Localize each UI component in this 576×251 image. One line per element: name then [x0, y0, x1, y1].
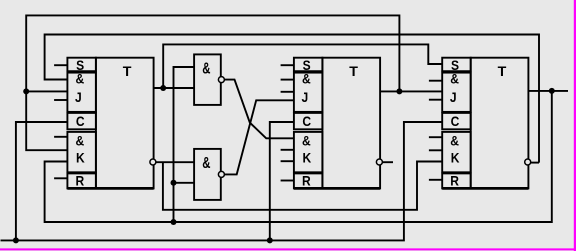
U1 C clock box	[67, 113, 96, 129]
U1 &K AND-K box	[67, 132, 96, 172]
junction dot v2/G2-in2	[171, 180, 177, 186]
flip-flop U2 body	[322, 58, 380, 189]
svg-text:C: C	[451, 113, 460, 129]
wire U1.Q to G1 input 2	[154, 87, 195, 89]
U3 inverted output bubble Qbar	[525, 159, 531, 165]
svg-text:T: T	[123, 64, 132, 80]
junction dot rail1/U1-J2	[23, 88, 29, 94]
wire U2.Qbar stub	[383, 161, 393, 163]
wire G2 output to U2 J (crossing up)	[224, 100, 294, 174]
svg-text:T: T	[498, 64, 507, 80]
junction dot clock/U2	[267, 237, 273, 243]
U3 unconnected input stub R	[429, 179, 442, 181]
U3 unconnected input stub J	[429, 99, 442, 101]
U3 S set box	[442, 58, 471, 71]
U1 inverted output bubble Qbar	[150, 159, 156, 165]
svg-text:J: J	[302, 89, 309, 105]
svg-text:K: K	[302, 150, 311, 166]
wire railB bottom (FF3.Q feedback)	[45, 91, 552, 222]
svg-text:&: &	[450, 71, 459, 87]
G1 output inversion bubble	[218, 77, 224, 83]
junction dot FF2.Q/rail1	[396, 88, 402, 94]
junction dot railB/v2	[171, 219, 177, 225]
wire branch to U1 &J2	[26, 90, 67, 92]
U3 &J AND-J box	[442, 73, 471, 112]
U3 C clock box	[442, 113, 471, 129]
canvas border bottom (magenta)	[0, 248, 576, 250]
U3 unconnected input stub &K-1	[429, 136, 442, 138]
U2 C clock box	[294, 113, 323, 129]
svg-text:K: K	[451, 150, 460, 166]
U1 S set box	[67, 58, 96, 71]
flip-flop U3 body	[471, 58, 529, 189]
U3 &K AND-K box	[442, 132, 471, 172]
wire branch v2 to G2 input 2	[174, 182, 195, 184]
U2 unconnected input stub K	[281, 160, 294, 162]
svg-text:R: R	[450, 173, 459, 189]
svg-text:C: C	[76, 113, 85, 129]
U2 unconnected input stub &J-2	[281, 91, 294, 93]
svg-text:K: K	[76, 150, 85, 166]
junction dot U1.Q branch	[160, 85, 166, 91]
U1 R reset box	[67, 173, 96, 188]
wire U3.Q	[528, 90, 568, 92]
svg-text:&: &	[450, 133, 459, 149]
U2 unconnected input stub &J-1	[281, 79, 294, 81]
svg-text:&: &	[302, 133, 311, 149]
svg-text:&: &	[75, 71, 84, 87]
U3 unconnected input stub &J-1	[429, 80, 442, 82]
U2 R reset box	[294, 173, 323, 188]
U2 unconnected input stub &K-2	[281, 149, 294, 151]
svg-text:&: &	[302, 71, 311, 87]
U2 unconnected input stub R	[281, 180, 294, 182]
U1 unconnected input stub J	[54, 99, 67, 101]
U1 &J AND-J box	[67, 73, 96, 112]
wire rail1 top (FF2.Q feedback to FF1 J/K ANDs)	[26, 15, 399, 150]
wire v2 (railB to G1 input 1)	[174, 67, 195, 222]
wire U2 C input	[270, 122, 294, 240]
U3 R reset box	[442, 173, 471, 188]
svg-text:&: &	[75, 133, 84, 149]
svg-text:&: &	[202, 60, 210, 77]
U1 unconnected input stub S	[54, 64, 67, 66]
svg-text:R: R	[302, 173, 311, 189]
U2 unconnected input stub S	[281, 64, 294, 66]
U2 &K AND-K box	[294, 132, 323, 172]
svg-text:T: T	[349, 64, 358, 80]
G2 output inversion bubble	[218, 171, 224, 177]
U2 S set box	[294, 58, 323, 71]
svg-text:C: C	[302, 113, 311, 129]
svg-text:R: R	[75, 173, 84, 189]
svg-text:&: &	[202, 154, 210, 171]
U2 inverted output bubble Qbar	[376, 159, 382, 165]
flip-flop U1 body	[96, 58, 154, 189]
wire G1 output to U2 &K1 (crossing down)	[224, 80, 294, 139]
wire U1.Qbar to G2 input 1	[156, 161, 194, 163]
U2 &J AND-J box	[294, 73, 323, 112]
wire clock rail	[1, 122, 443, 240]
NAND gate G1 body	[194, 54, 221, 105]
wire U2.Q to U3 &J2	[380, 90, 442, 92]
U1 unconnected input stub R	[54, 177, 67, 179]
wire U1 C input	[16, 122, 68, 240]
U3 unconnected input stub &K-2	[429, 149, 442, 151]
wire U3.Qbar	[531, 162, 539, 164]
wire rail2 (FF3.Qbar to U1 &J1)	[45, 35, 539, 163]
wire U1.Q branch to U3 S input	[163, 44, 442, 88]
junction dot clock/U1	[13, 237, 19, 243]
U1 unconnected input stub &K-1	[54, 136, 67, 138]
NAND gate G2 body	[194, 149, 221, 200]
canvas border right (magenta)	[574, 0, 576, 251]
wire railA (U1.Qbar to U3 K3)	[163, 162, 442, 210]
svg-text:J: J	[75, 89, 82, 105]
junction dot FF3.Q/railB	[549, 88, 555, 94]
svg-text:J: J	[450, 89, 457, 105]
